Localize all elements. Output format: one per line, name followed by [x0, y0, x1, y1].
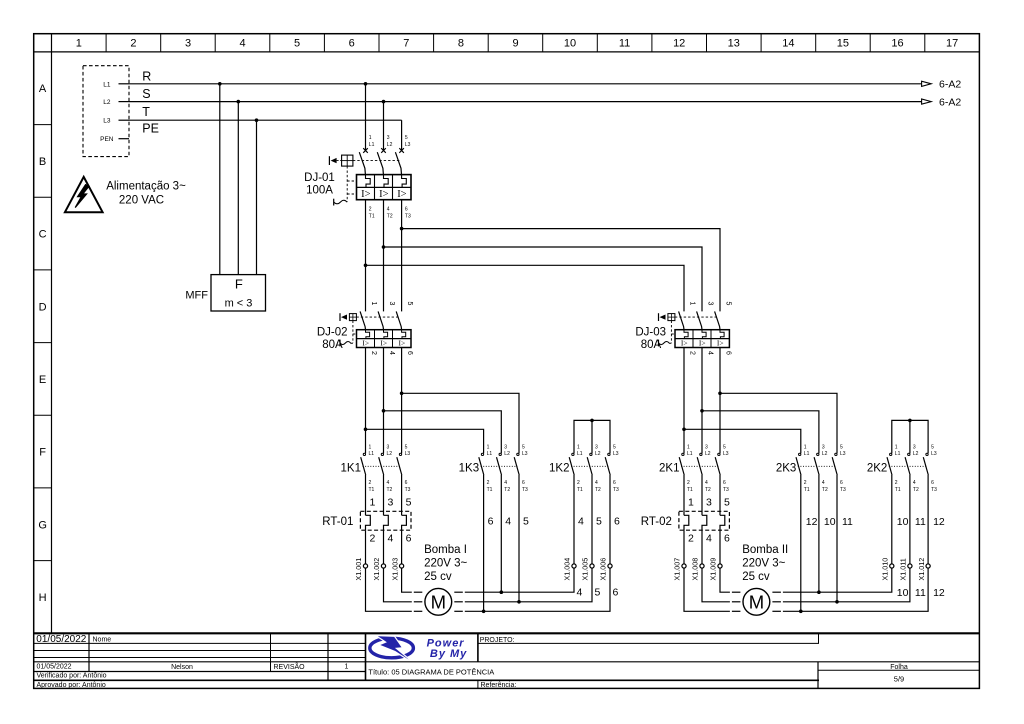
- svg-text:Bomba I: Bomba I: [424, 544, 467, 556]
- svg-text:Nome: Nome: [93, 637, 112, 644]
- svg-text:F: F: [235, 277, 243, 292]
- terminal X1.011: [899, 558, 912, 580]
- wire DJ-01 to DJ-03 feeders: [366, 229, 721, 312]
- svg-text:L1: L1: [687, 451, 693, 457]
- svg-text:C: C: [39, 229, 47, 241]
- svg-text:12: 12: [933, 516, 945, 528]
- svg-text:5: 5: [596, 515, 602, 527]
- svg-text:80A: 80A: [641, 339, 662, 351]
- svg-text:X1.006: X1.006: [599, 558, 608, 581]
- svg-text:T2: T2: [913, 487, 919, 493]
- svg-text:L1: L1: [369, 142, 375, 148]
- label Alimentacao 220 VAC: [106, 181, 186, 207]
- svg-text:2: 2: [369, 480, 372, 486]
- svg-text:6: 6: [724, 533, 730, 545]
- svg-text:L1: L1: [369, 451, 375, 457]
- svg-text:4: 4: [578, 515, 584, 527]
- svg-text:T3: T3: [840, 487, 846, 493]
- svg-text:1: 1: [577, 444, 580, 450]
- svg-text:5: 5: [613, 444, 616, 450]
- svg-text:2: 2: [687, 480, 690, 486]
- svg-text:L3: L3: [723, 451, 729, 457]
- svg-text:I>: I>: [681, 339, 688, 348]
- svg-text:L3: L3: [931, 451, 937, 457]
- wire S to DJ-01 pole2: [383, 102, 385, 151]
- svg-text:3: 3: [706, 496, 712, 508]
- svg-text:4: 4: [504, 480, 507, 486]
- svg-text:L3: L3: [405, 451, 411, 457]
- svg-text:T3: T3: [405, 214, 411, 220]
- svg-text:B: B: [39, 156, 46, 168]
- svg-text:T3: T3: [522, 487, 528, 493]
- terminal X1.005: [581, 558, 594, 581]
- svg-text:5/9: 5/9: [894, 675, 904, 684]
- svg-text:2: 2: [688, 533, 694, 545]
- svg-text:8: 8: [458, 38, 464, 50]
- wire DJ-01 to DJ-02: [364, 200, 404, 312]
- svg-text:L2: L2: [504, 451, 510, 457]
- motor M1 Bomba I: [425, 588, 452, 615]
- wire 2K2 outputs: [783, 475, 945, 611]
- svg-text:2: 2: [804, 480, 807, 486]
- terminal X1.008: [691, 558, 704, 581]
- svg-text:1: 1: [369, 135, 372, 141]
- label Bomba I: [424, 544, 467, 583]
- svg-text:I>: I>: [699, 339, 706, 348]
- svg-text:M: M: [431, 591, 446, 612]
- label Bomba II: [742, 544, 788, 583]
- svg-text:1: 1: [76, 38, 82, 50]
- svg-text:4: 4: [388, 351, 395, 355]
- svg-text:5: 5: [723, 444, 726, 450]
- wire terminals to motor II: [684, 568, 781, 611]
- svg-text:4: 4: [239, 38, 245, 50]
- terminal X1.001: [354, 558, 367, 581]
- svg-text:25 cv: 25 cv: [742, 571, 770, 583]
- svg-text:5: 5: [405, 444, 408, 450]
- svg-text:MFF: MFF: [185, 289, 208, 301]
- svg-text:6: 6: [723, 480, 726, 486]
- svg-text:5: 5: [840, 444, 843, 450]
- svg-text:4: 4: [387, 480, 390, 486]
- wire DJ-03 to 2K3 feeders: [684, 393, 837, 453]
- terminal X1.010: [881, 558, 894, 581]
- svg-text:1: 1: [687, 444, 690, 450]
- svg-text:L2: L2: [387, 142, 393, 148]
- svg-text:T2: T2: [387, 214, 393, 220]
- svg-text:1K2: 1K2: [549, 463, 569, 475]
- svg-text:6: 6: [488, 515, 494, 527]
- terminal X1.012: [917, 558, 930, 581]
- svg-text:G: G: [38, 519, 47, 531]
- svg-text:6: 6: [725, 351, 732, 355]
- svg-text:5: 5: [406, 302, 413, 306]
- svg-text:80A: 80A: [322, 339, 343, 351]
- svg-text:4: 4: [388, 533, 394, 545]
- svg-text:14: 14: [782, 38, 794, 50]
- svg-text:6: 6: [614, 515, 620, 527]
- wire RT-01 to terminals: [366, 530, 402, 564]
- contactor 1K3: [459, 444, 528, 493]
- svg-text:By My: By My: [430, 648, 467, 660]
- svg-text:2: 2: [130, 38, 136, 50]
- wire 2K3 outputs: [799, 475, 853, 613]
- svg-text:4: 4: [913, 480, 916, 486]
- svg-text:3: 3: [913, 444, 916, 450]
- wire T to DJ-01 pole3: [401, 120, 403, 150]
- svg-text:4: 4: [505, 515, 511, 527]
- svg-text:X1.012: X1.012: [917, 558, 926, 581]
- svg-text:L3: L3: [840, 451, 846, 457]
- terminal X1.006: [599, 558, 612, 581]
- terminal X1.003: [390, 558, 403, 581]
- svg-text:L1: L1: [103, 81, 111, 88]
- svg-text:I>: I>: [397, 189, 406, 200]
- svg-text:D: D: [39, 301, 47, 313]
- svg-text:2K1: 2K1: [659, 463, 679, 475]
- svg-text:X1.001: X1.001: [354, 558, 363, 581]
- svg-text:RT-02: RT-02: [641, 516, 672, 528]
- svg-text:5: 5: [523, 515, 529, 527]
- svg-text:L1: L1: [895, 451, 901, 457]
- svg-text:5: 5: [931, 444, 934, 450]
- svg-text:17: 17: [946, 38, 958, 50]
- svg-text:9: 9: [512, 38, 518, 50]
- svg-text:T1: T1: [487, 487, 493, 493]
- contactor 2K2: [867, 444, 937, 493]
- svg-text:220V 3~: 220V 3~: [742, 558, 785, 570]
- title block: [34, 633, 980, 689]
- terminal X1.004: [563, 558, 576, 581]
- svg-text:T2: T2: [595, 487, 601, 493]
- svg-text:M: M: [749, 591, 764, 612]
- svg-text:I>: I>: [379, 189, 388, 200]
- svg-text:1: 1: [345, 664, 349, 671]
- svg-text:3: 3: [705, 444, 708, 450]
- wire star bridge 1K2: [574, 419, 610, 454]
- svg-text:2K3: 2K3: [776, 463, 796, 475]
- contactor 2K3: [776, 444, 846, 493]
- svg-text:4: 4: [705, 480, 708, 486]
- svg-text:DJ-02: DJ-02: [317, 326, 348, 338]
- svg-text:RT-01: RT-01: [322, 516, 353, 528]
- thermal relay RT-02: [641, 475, 730, 545]
- svg-text:3: 3: [822, 444, 825, 450]
- svg-text:L2: L2: [387, 451, 393, 457]
- svg-text:11: 11: [915, 587, 926, 599]
- svg-text:4: 4: [707, 351, 714, 355]
- svg-text:10: 10: [897, 587, 909, 599]
- svg-text:X1.002: X1.002: [372, 558, 381, 581]
- svg-text:12: 12: [673, 38, 685, 50]
- svg-text:I>: I>: [399, 339, 406, 348]
- svg-text:100A: 100A: [306, 185, 333, 197]
- wire R to MFF: [219, 84, 221, 275]
- svg-text:10: 10: [897, 516, 909, 528]
- svg-text:3: 3: [185, 38, 191, 50]
- svg-text:T2: T2: [387, 487, 393, 493]
- svg-text:I>: I>: [717, 339, 724, 348]
- wire 1K2 outputs: [465, 475, 620, 611]
- wire T to MFF: [256, 120, 258, 274]
- bus S: [129, 87, 961, 108]
- svg-text:1: 1: [487, 444, 490, 450]
- svg-text:R: R: [142, 69, 151, 83]
- svg-text:6: 6: [405, 207, 408, 213]
- svg-text:I>: I>: [361, 189, 370, 200]
- svg-text:T1: T1: [369, 487, 375, 493]
- svg-text:5: 5: [725, 302, 732, 306]
- svg-text:Título: 05 DIAGRAMA DE POTÊNCI: Título: 05 DIAGRAMA DE POTÊNCIA: [368, 668, 494, 677]
- svg-text:12: 12: [806, 516, 818, 528]
- svg-text:S: S: [142, 87, 150, 101]
- wire DJ-02 to 1K3 feeders: [366, 393, 520, 453]
- svg-text:L3: L3: [405, 142, 411, 148]
- terminal X1.009: [709, 558, 722, 581]
- svg-text:6-A2: 6-A2: [939, 79, 961, 91]
- svg-text:01/05/2022: 01/05/2022: [36, 634, 86, 645]
- svg-text:L1: L1: [487, 451, 493, 457]
- terminal X1.002: [372, 558, 385, 581]
- svg-text:5: 5: [405, 135, 408, 141]
- svg-text:11: 11: [915, 516, 926, 528]
- svg-text:4: 4: [595, 480, 598, 486]
- svg-text:T1: T1: [687, 487, 693, 493]
- svg-text:3: 3: [388, 496, 394, 508]
- svg-text:11: 11: [619, 38, 630, 50]
- circuit breaker DJ-02 80A: [317, 302, 413, 356]
- svg-text:7: 7: [403, 38, 409, 50]
- svg-text:L3: L3: [613, 451, 619, 457]
- svg-text:DJ-03: DJ-03: [635, 326, 666, 338]
- svg-text:2: 2: [370, 533, 376, 545]
- svg-text:X1.004: X1.004: [563, 558, 572, 581]
- svg-text:L2: L2: [103, 99, 111, 106]
- warning symbol lightning triangle: [65, 177, 103, 212]
- svg-text:15: 15: [837, 38, 849, 50]
- contactor 1K2: [549, 444, 619, 493]
- svg-text:5: 5: [724, 496, 730, 508]
- svg-text:2K2: 2K2: [867, 463, 887, 475]
- circuit breaker DJ-01 100A: [304, 135, 411, 219]
- svg-text:X1.011: X1.011: [899, 558, 908, 580]
- svg-text:F: F: [39, 447, 46, 459]
- contactor 2K1: [659, 444, 729, 493]
- svg-text:3: 3: [595, 444, 598, 450]
- contactor 1K1: [341, 444, 411, 493]
- svg-text:T1: T1: [804, 487, 810, 493]
- svg-text:1: 1: [895, 444, 898, 450]
- svg-text:4: 4: [822, 480, 825, 486]
- svg-text:3: 3: [707, 302, 714, 306]
- svg-text:2: 2: [577, 480, 580, 486]
- bus T: [129, 105, 402, 122]
- svg-text:L2: L2: [705, 451, 711, 457]
- svg-text:10: 10: [824, 516, 836, 528]
- svg-text:6: 6: [406, 533, 412, 545]
- thermal relay RT-01: [322, 475, 411, 545]
- svg-text:T3: T3: [723, 487, 729, 493]
- svg-text:2: 2: [370, 351, 377, 355]
- svg-text:X1.010: X1.010: [881, 558, 890, 581]
- svg-text:DJ-01: DJ-01: [304, 172, 335, 184]
- bus R: [129, 69, 961, 90]
- svg-text:L2: L2: [913, 451, 919, 457]
- svg-text:1: 1: [689, 302, 696, 306]
- wire terminals to motor I: [366, 568, 463, 611]
- svg-text:6: 6: [405, 480, 408, 486]
- svg-text:REVISÃO: REVISÃO: [274, 662, 306, 671]
- svg-text:Folha: Folha: [890, 664, 908, 671]
- wire star bridge 2K2: [892, 419, 928, 454]
- svg-text:2: 2: [487, 480, 490, 486]
- svg-text:16: 16: [891, 38, 903, 50]
- svg-text:6: 6: [349, 38, 355, 50]
- svg-text:L3: L3: [103, 118, 111, 125]
- svg-text:L1: L1: [577, 451, 583, 457]
- svg-text:PE: PE: [142, 122, 159, 136]
- logo Power By My: [370, 636, 468, 660]
- svg-text:m < 3: m < 3: [225, 298, 253, 310]
- svg-text:1: 1: [804, 444, 807, 450]
- wire S to MFF: [237, 102, 239, 275]
- svg-text:X1.008: X1.008: [691, 558, 700, 581]
- svg-text:13: 13: [728, 38, 740, 50]
- svg-text:6: 6: [522, 480, 525, 486]
- svg-text:6: 6: [406, 351, 413, 355]
- svg-text:X1.003: X1.003: [390, 558, 399, 581]
- wire DJ-03 to 2K1: [682, 348, 722, 454]
- svg-text:X1.007: X1.007: [673, 558, 682, 581]
- svg-text:4: 4: [706, 533, 712, 545]
- svg-text:6: 6: [840, 480, 843, 486]
- circuit breaker DJ-03 80A: [635, 302, 731, 356]
- svg-text:1K1: 1K1: [341, 463, 361, 475]
- svg-text:1K3: 1K3: [459, 463, 479, 475]
- svg-text:2: 2: [895, 480, 898, 486]
- svg-text:T1: T1: [577, 487, 583, 493]
- svg-text:11: 11: [842, 516, 853, 528]
- svg-text:Aprovado por: Antônio: Aprovado por: Antônio: [37, 682, 106, 689]
- svg-text:Bomba II: Bomba II: [742, 544, 788, 556]
- monitor relay MFF "F m<3": [185, 275, 265, 311]
- svg-text:A: A: [39, 83, 47, 95]
- svg-text:H: H: [39, 592, 47, 604]
- svg-text:10: 10: [564, 38, 576, 50]
- svg-text:Referência:: Referência:: [481, 682, 517, 689]
- svg-text:25 cv: 25 cv: [424, 571, 452, 583]
- svg-text:T3: T3: [405, 487, 411, 493]
- svg-text:220 VAC: 220 VAC: [119, 195, 164, 207]
- svg-text:6-A2: 6-A2: [939, 96, 961, 108]
- wire DJ-02 to 1K1: [364, 348, 404, 454]
- svg-text:PROJETO:: PROJETO:: [480, 637, 515, 644]
- svg-text:T: T: [142, 105, 150, 119]
- svg-text:5: 5: [406, 496, 412, 508]
- svg-text:T3: T3: [931, 487, 937, 493]
- svg-text:6: 6: [931, 480, 934, 486]
- wire RT-02 to terminals: [684, 530, 720, 564]
- svg-text:3: 3: [388, 302, 395, 306]
- wire R to DJ-01 pole1: [365, 84, 367, 151]
- svg-text:Alimentação 3~: Alimentação 3~: [106, 181, 186, 193]
- svg-text:3: 3: [387, 135, 390, 141]
- svg-text:12: 12: [933, 587, 945, 599]
- svg-text:T1: T1: [895, 487, 901, 493]
- svg-text:5: 5: [294, 38, 300, 50]
- svg-text:5: 5: [522, 444, 525, 450]
- svg-text:2: 2: [369, 207, 372, 213]
- svg-text:220V 3~: 220V 3~: [424, 558, 467, 570]
- svg-text:5: 5: [595, 587, 601, 599]
- svg-text:L1: L1: [804, 451, 810, 457]
- svg-text:1: 1: [369, 444, 372, 450]
- svg-text:T2: T2: [822, 487, 828, 493]
- svg-text:E: E: [39, 374, 46, 386]
- svg-text:6: 6: [613, 587, 619, 599]
- svg-text:Verificado por: Antônio: Verificado por: Antônio: [37, 673, 107, 680]
- svg-text:3: 3: [504, 444, 507, 450]
- svg-text:T2: T2: [504, 487, 510, 493]
- svg-text:1: 1: [370, 302, 377, 306]
- svg-text:Nelson: Nelson: [171, 664, 193, 671]
- svg-text:L2: L2: [595, 451, 601, 457]
- wire 1K3 outputs: [482, 475, 529, 613]
- svg-text:3: 3: [387, 444, 390, 450]
- svg-text:I>: I>: [380, 339, 387, 348]
- svg-text:01/05/2022: 01/05/2022: [37, 664, 72, 671]
- terminal X1.007: [673, 558, 686, 581]
- svg-text:1: 1: [688, 496, 694, 508]
- svg-text:L2: L2: [822, 451, 828, 457]
- svg-text:I>: I>: [362, 339, 369, 348]
- svg-text:T1: T1: [369, 214, 375, 220]
- svg-text:T2: T2: [705, 487, 711, 493]
- svg-text:PEN: PEN: [100, 136, 114, 143]
- svg-text:X1.005: X1.005: [581, 558, 590, 581]
- motor M2 Bomba II: [743, 588, 770, 615]
- svg-text:1: 1: [370, 496, 376, 508]
- svg-text:4: 4: [387, 207, 390, 213]
- svg-text:2: 2: [689, 351, 696, 355]
- source terminal box L1 L2 L3 PEN: [83, 66, 129, 157]
- svg-text:4: 4: [577, 587, 583, 599]
- svg-text:L3: L3: [522, 451, 528, 457]
- svg-text:X1.009: X1.009: [709, 558, 718, 581]
- svg-text:6: 6: [613, 480, 616, 486]
- svg-text:T3: T3: [613, 487, 619, 493]
